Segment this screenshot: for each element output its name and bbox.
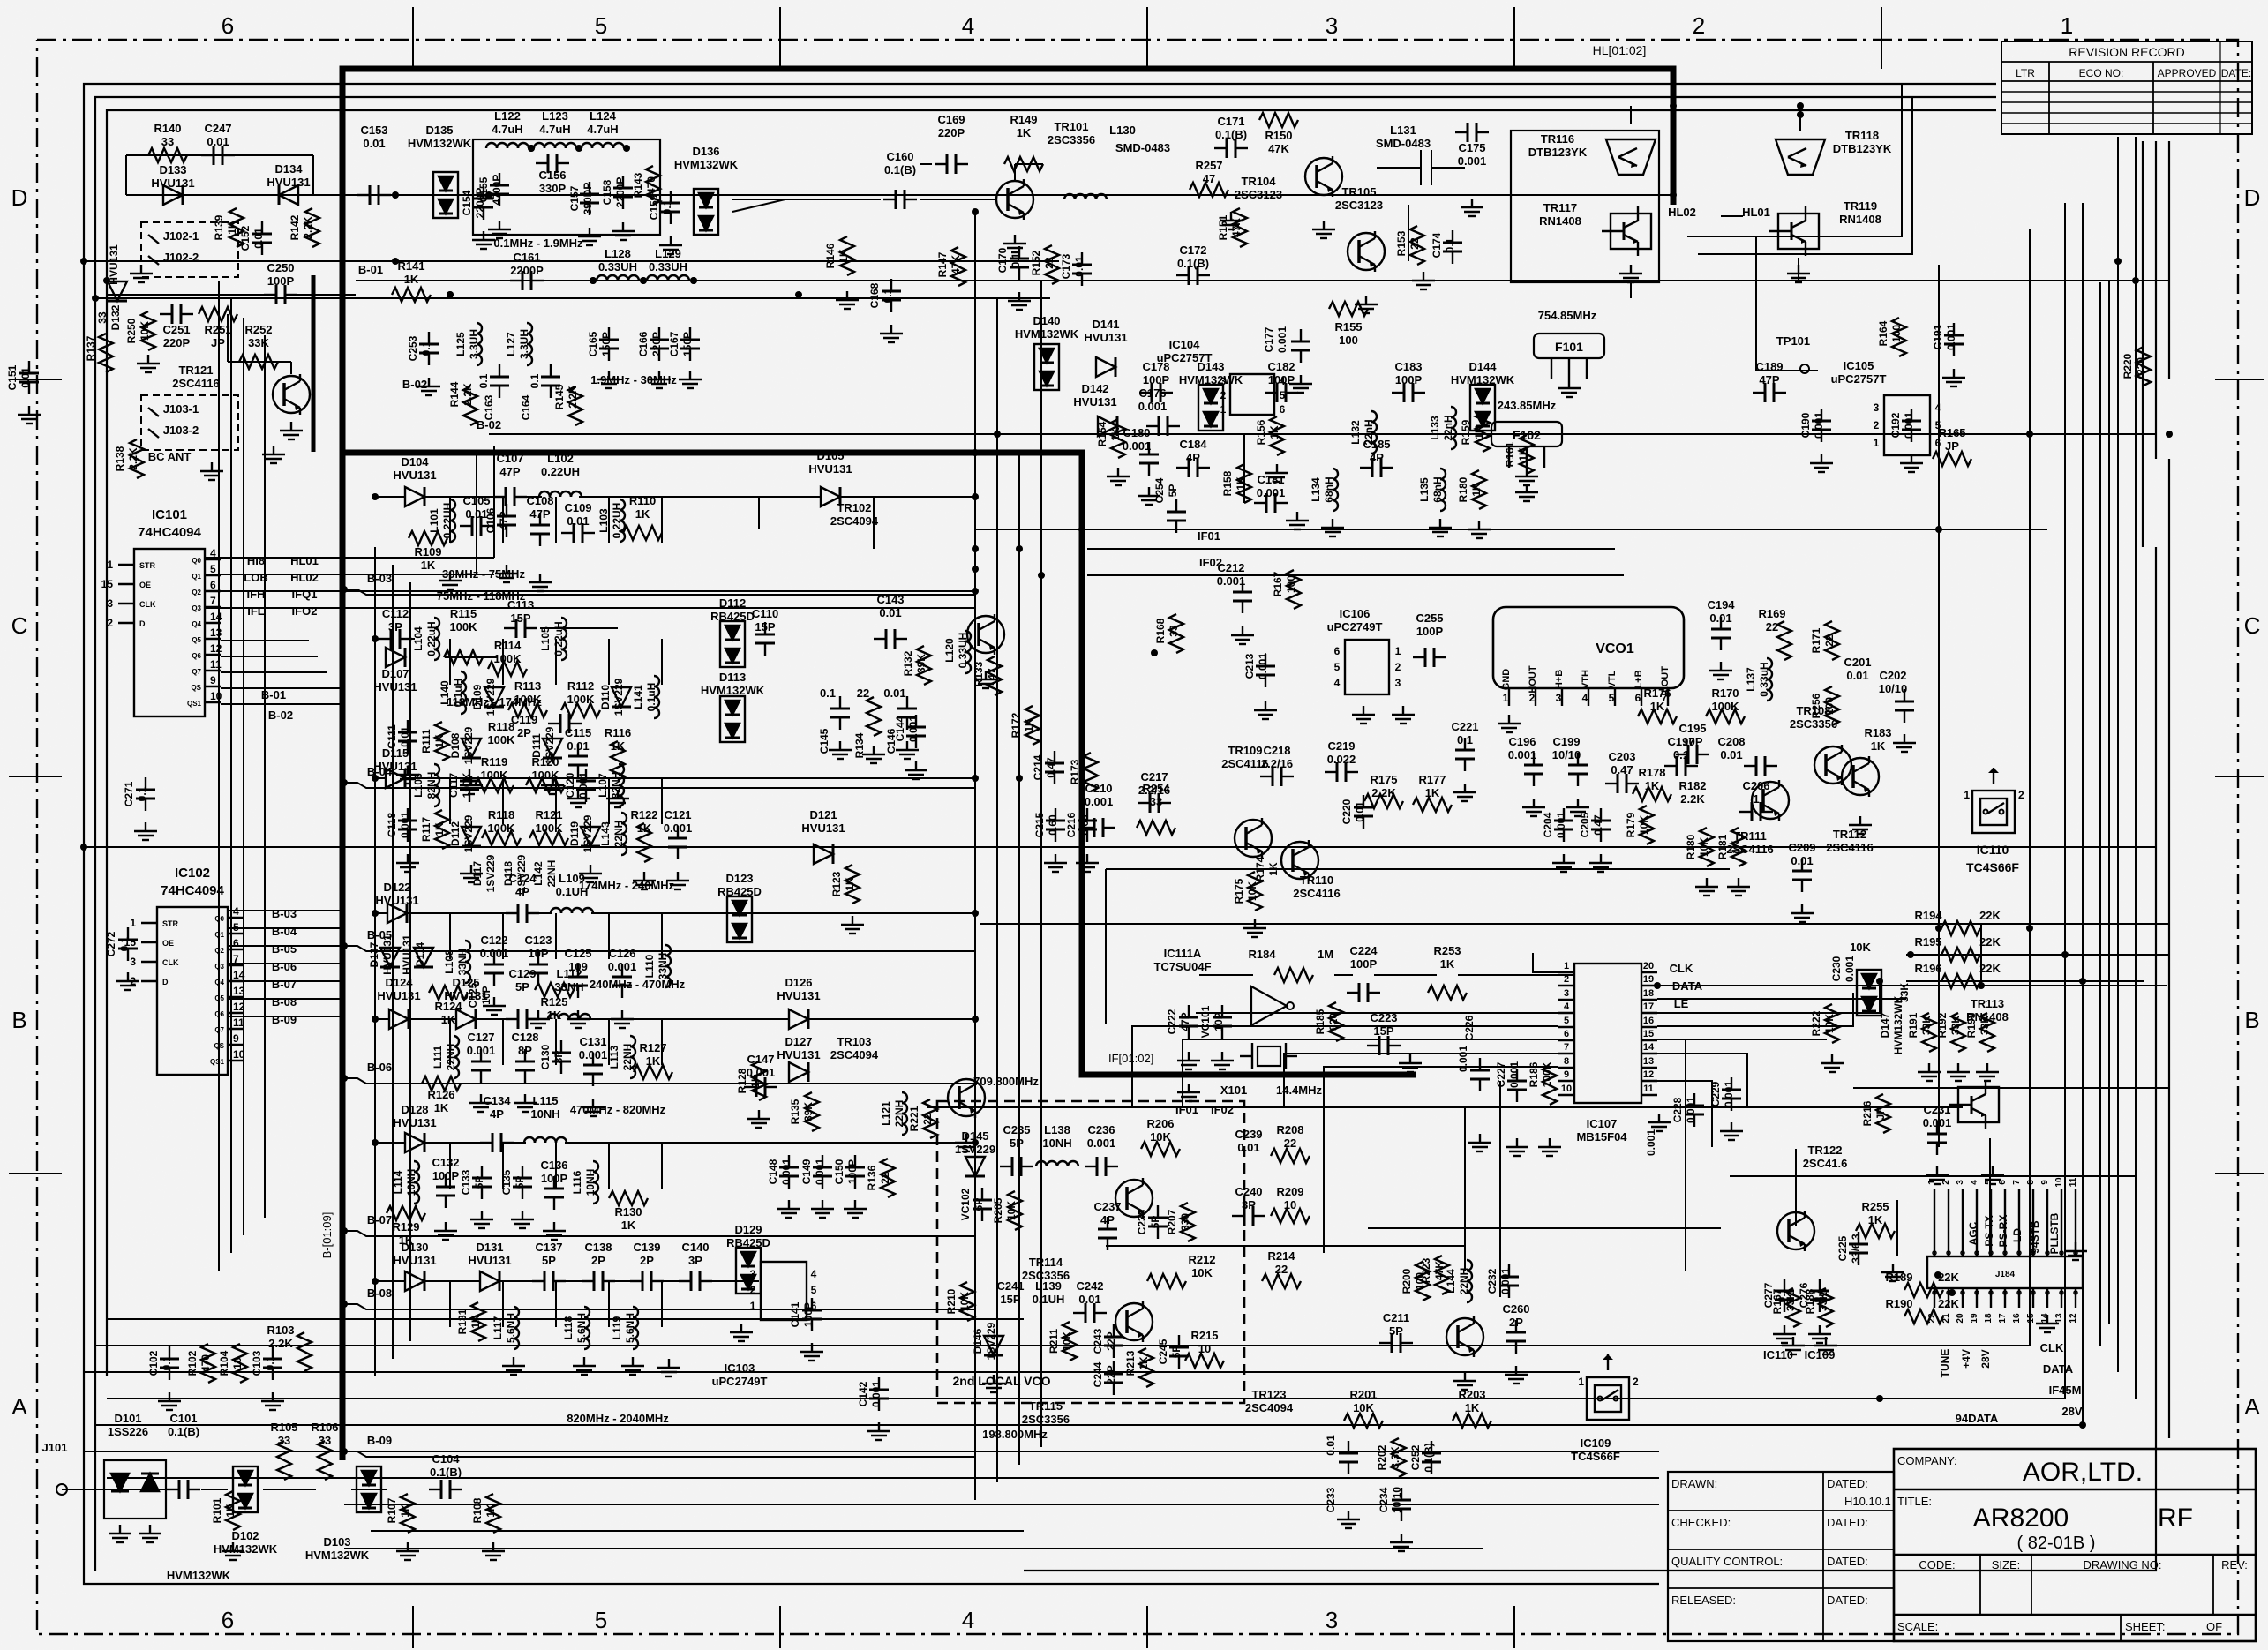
ground xyxy=(1076,854,1099,872)
resistor R210 xyxy=(945,1288,971,1314)
inductor L120 symbol xyxy=(965,631,971,673)
resistor R168 symbol xyxy=(1169,614,1183,653)
diode D126 symbol xyxy=(789,1009,808,1029)
capacitor C119 symbol xyxy=(548,714,582,733)
capacitor C138 xyxy=(584,1241,612,1267)
cap value xyxy=(820,686,836,700)
resistor R255 xyxy=(1861,1200,1889,1226)
capacitor C121 xyxy=(664,808,693,835)
ground xyxy=(1177,1084,1200,1101)
capacitor C219 xyxy=(1327,739,1356,766)
inductor L115 xyxy=(530,1094,559,1121)
IC IC110 switch xyxy=(1964,768,2024,874)
resistor R127 symbol xyxy=(634,1065,672,1079)
capacitor C277 symbol xyxy=(1775,1279,1794,1312)
resistor R195 symbol xyxy=(1941,948,1980,962)
net HL01 xyxy=(1742,206,1770,219)
ground xyxy=(844,1200,867,1218)
v xyxy=(1979,909,2001,922)
resistor R191 symbol xyxy=(1922,1013,1936,1052)
capacitor C156 symbol xyxy=(536,154,569,173)
resistor R115 xyxy=(449,607,477,634)
ground xyxy=(1814,1337,1837,1354)
transistor TR111 label xyxy=(1726,829,1774,856)
ground xyxy=(1942,369,1965,386)
capacitor C152 symbol xyxy=(252,221,272,255)
resistor R256 xyxy=(1810,693,1836,718)
cap 0.01 xyxy=(1325,1435,1337,1456)
resistor R214 xyxy=(1267,1249,1295,1276)
capacitor C175 symbol xyxy=(1455,123,1489,142)
diode D132 symbol xyxy=(108,281,127,301)
resistor R151 symbol xyxy=(1233,208,1247,247)
resistor R165 xyxy=(1938,426,1965,453)
junction xyxy=(690,277,697,284)
inductor L104 xyxy=(412,621,438,656)
ground xyxy=(1138,487,1160,505)
junction xyxy=(575,145,582,152)
connector J184 pins xyxy=(1927,1177,2078,1324)
crystal X101 xyxy=(1240,1043,1297,1069)
net B-07 xyxy=(272,978,297,991)
capacitor C233 label xyxy=(1325,1487,1337,1512)
resistor R114 symbol xyxy=(488,662,527,676)
wire xyxy=(141,911,342,1016)
capacitor C233 symbol xyxy=(1339,1441,1358,1474)
capacitor C164 symbol xyxy=(541,364,560,398)
capacitor C134 symbol xyxy=(480,1133,514,1152)
diode D114 xyxy=(401,934,426,975)
capacitor C218 symbol xyxy=(1260,767,1294,786)
diode D145 xyxy=(955,1129,995,1156)
inductor L129 symbol xyxy=(647,275,689,281)
diode D118 xyxy=(502,854,528,892)
diode D127 xyxy=(777,1035,820,1061)
capacitor C181 xyxy=(1257,473,1286,499)
resistor R133 symbol xyxy=(988,656,1002,695)
capacitor C214 xyxy=(1032,754,1057,780)
inductor L143 symbol xyxy=(621,813,627,855)
resistor R184 name xyxy=(1248,948,1276,961)
ground xyxy=(469,1094,492,1112)
resistor R110 symbol xyxy=(623,526,662,540)
inductor L109 xyxy=(556,872,589,898)
net DATA2 xyxy=(2043,1362,2074,1376)
diode D143 symbol xyxy=(1198,385,1223,431)
ground xyxy=(836,291,859,309)
capacitor C174 xyxy=(1431,232,1456,258)
net B-01 xyxy=(261,688,286,701)
diode D140 xyxy=(1015,314,1079,341)
transistor TR104 xyxy=(1305,156,1342,197)
inductor L116 symbol xyxy=(593,1161,598,1204)
transistor TR123 label xyxy=(1245,1388,1294,1414)
inductor L106 xyxy=(412,772,438,799)
inductor L128 xyxy=(598,247,637,274)
diode D123 xyxy=(717,872,762,898)
ground xyxy=(659,236,682,254)
ground xyxy=(1321,519,1344,536)
capacitor C142 xyxy=(857,1381,882,1407)
resistor R207 xyxy=(1166,1209,1191,1234)
ground xyxy=(841,916,864,934)
capacitor C142 symbol xyxy=(869,1377,889,1411)
diode D137 xyxy=(368,934,394,975)
capacitor C251 xyxy=(162,323,190,349)
diode D143 xyxy=(1179,360,1243,386)
resistor R141 symbol xyxy=(392,288,431,302)
resistor R181 symbol xyxy=(1731,828,1746,866)
capacitor C105 symbol xyxy=(460,516,493,536)
net B-09 xyxy=(272,1013,297,1026)
resistor R216 symbol xyxy=(1876,1094,1890,1133)
L130 label xyxy=(1115,141,1170,154)
resistor R109 symbol xyxy=(409,531,447,545)
resistor R164 symbol xyxy=(1892,318,1906,356)
diode D122 symbol xyxy=(387,904,407,923)
net HL01 xyxy=(290,554,319,567)
resistor R213 symbol xyxy=(1139,1348,1153,1387)
resistor R189 symbol2 xyxy=(1904,1283,1943,1297)
capacitor C145 symbol xyxy=(830,696,850,730)
capacitor C191 xyxy=(1932,324,1957,350)
ground xyxy=(1720,1122,1743,1140)
inductor L130 symbol xyxy=(1064,194,1107,199)
capacitor C206 xyxy=(1742,779,1769,806)
inductor L112 xyxy=(554,967,583,994)
ground xyxy=(747,1110,770,1128)
resistor R180 symbol xyxy=(1472,470,1486,509)
diode D101 bridge xyxy=(104,1460,166,1542)
capacitor C168 xyxy=(868,282,894,308)
ground xyxy=(1791,904,1814,922)
ground xyxy=(1453,784,1476,801)
capacitor C113 symbol xyxy=(504,619,537,638)
capacitor C240 symbol xyxy=(1232,1206,1265,1226)
diode D146 xyxy=(972,1322,997,1360)
resistor R176 symbol xyxy=(1638,709,1677,724)
diode D130 symbol xyxy=(405,1271,424,1291)
resistor R221 xyxy=(908,1106,934,1131)
resistor R183 label xyxy=(1864,726,1891,753)
net IFO2 xyxy=(292,604,318,618)
R184 value xyxy=(1318,948,1333,961)
capacitor C185 symbol xyxy=(1360,458,1393,477)
resistor R215 xyxy=(1190,1329,1218,1355)
capacitor C171 xyxy=(1215,115,1247,141)
resistor R124 xyxy=(434,1000,462,1026)
resistor R145 symbol xyxy=(568,386,582,425)
capacitor C231 xyxy=(1923,1103,1952,1129)
resistor R142 xyxy=(289,214,314,240)
ground xyxy=(1453,1372,1476,1390)
ground xyxy=(1981,1166,2004,1184)
ground xyxy=(612,222,635,240)
resistor R127 xyxy=(639,1041,666,1068)
resistor R172 xyxy=(1010,712,1035,738)
transistor TR122 xyxy=(1777,1211,1814,1251)
transistor TR103 label xyxy=(830,1035,879,1061)
resistor R188 symbol xyxy=(1819,1288,1833,1327)
band label 240-470 xyxy=(590,978,686,991)
resistor R106 lab xyxy=(311,1421,338,1447)
resistor R171 symbol xyxy=(1825,621,1839,660)
inductor L117 xyxy=(492,1313,517,1343)
value xyxy=(1938,1271,1959,1284)
resistor R154 xyxy=(1096,421,1122,446)
capacitor C128 symbol xyxy=(515,1049,535,1083)
inductor L135 xyxy=(1418,476,1444,502)
resistor R155 xyxy=(1334,320,1362,347)
wire xyxy=(205,446,975,704)
resistor R159 symbol xyxy=(1476,413,1490,452)
net HL02 xyxy=(1668,206,1696,219)
capacitor C153 xyxy=(360,124,387,150)
resistor R185 symbol xyxy=(1329,1002,1343,1041)
ground xyxy=(1265,464,1288,482)
capacitor C165 symbol xyxy=(599,327,619,361)
capacitor C213 xyxy=(1243,653,1269,679)
inductor L106 symbol xyxy=(434,764,439,806)
capacitor C107 xyxy=(496,452,523,478)
diode D111 xyxy=(530,726,556,764)
IC IC101 74HC4094 xyxy=(101,507,222,716)
capacitor C238 xyxy=(1136,1209,1161,1234)
band label 174-240 xyxy=(579,879,675,892)
inductor L144 symbol xyxy=(1467,1260,1472,1302)
wire xyxy=(1377,150,1465,185)
resistor R147 symbol xyxy=(951,247,965,286)
ground xyxy=(567,790,590,807)
diode D121 xyxy=(801,808,845,835)
ground xyxy=(1399,1054,1422,1072)
capacitor C226 symbol xyxy=(1470,1058,1490,1091)
ground xyxy=(829,741,852,759)
diode D134 symbol xyxy=(279,185,298,205)
resistor R131 symbol xyxy=(471,1302,485,1341)
resistor R150 symbol xyxy=(1259,113,1298,127)
capacitor C212 xyxy=(1217,561,1246,588)
ground xyxy=(1008,292,1031,310)
resistor R119 symbol xyxy=(475,778,514,792)
diode D117 xyxy=(471,854,497,892)
inductor L105 symbol xyxy=(561,618,567,660)
resistor R172 symbol xyxy=(1025,706,1040,745)
resistor R250 xyxy=(125,318,151,343)
capacitor C160 symbol xyxy=(883,190,917,209)
IC104 box xyxy=(1220,374,1286,416)
capacitor C119 label xyxy=(511,713,537,739)
net IFQ1 xyxy=(292,588,318,601)
resistor R101 xyxy=(211,1497,237,1523)
capacitor C182 xyxy=(1267,360,1295,386)
resistor R253 symbol xyxy=(1428,986,1467,1000)
ground xyxy=(1589,854,1612,872)
inductor L124 symbol xyxy=(582,143,624,148)
diode D125 symbol xyxy=(456,1009,476,1029)
ground xyxy=(896,741,919,759)
capacitor C124 xyxy=(508,872,537,898)
capacitor C115 xyxy=(565,726,591,753)
resistor R134 symbol xyxy=(867,697,881,736)
IC IC107 box xyxy=(1558,961,1657,1103)
capacitor C195 symbol xyxy=(1676,745,1709,764)
capacitor C271 symbol xyxy=(136,777,155,811)
resistor R104 xyxy=(218,1350,244,1376)
ground xyxy=(578,228,601,245)
capacitor C140 symbol xyxy=(679,1271,712,1291)
inductor L129 xyxy=(649,247,687,274)
diode D131 xyxy=(468,1241,511,1267)
ground xyxy=(811,1200,834,1218)
resistor R208 xyxy=(1276,1123,1303,1150)
capacitor C245 xyxy=(1157,1339,1183,1364)
inductor L111 xyxy=(432,1044,457,1071)
diode D119 xyxy=(568,814,594,852)
diode D102 symbol xyxy=(233,1466,258,1512)
capacitor C153 symbol xyxy=(357,185,391,205)
ground xyxy=(1808,1325,1831,1343)
capacitor C209 symbol xyxy=(1792,859,1812,892)
filter box 0.1-1.9MHz xyxy=(473,139,660,235)
capacitor C196 symbol xyxy=(1524,753,1543,786)
transistor TR101 xyxy=(996,179,1033,220)
ground xyxy=(1515,484,1538,501)
transistor TR110 xyxy=(1281,840,1318,881)
bus B-01/B-02 thick stub xyxy=(312,275,316,452)
resistor R192 symbol xyxy=(1951,1013,1965,1052)
net B-05 bus takeoff xyxy=(344,928,975,951)
ground xyxy=(1782,1337,1805,1354)
testpoint TP101 xyxy=(1776,334,1810,348)
res value xyxy=(857,686,869,700)
ground xyxy=(1231,626,1254,644)
inductor L104 symbol xyxy=(434,618,439,660)
net HL02 xyxy=(290,571,319,584)
diode D133 symbol xyxy=(163,185,183,205)
inductor L140 symbol xyxy=(461,671,466,714)
ground xyxy=(482,1542,505,1560)
diode D112 xyxy=(710,596,755,623)
capacitor C255 xyxy=(1416,611,1443,638)
ground xyxy=(1773,1325,1796,1343)
resistor R128 symbol xyxy=(752,1061,766,1100)
net IF01 xyxy=(1198,529,1220,543)
capacitor C125 label xyxy=(467,982,492,1008)
capacitor C203 xyxy=(1608,750,1635,776)
wire xyxy=(732,199,881,212)
capacitor C173 xyxy=(1060,253,1085,279)
transistor TR113 label xyxy=(1966,997,2009,1024)
inductor L109 symbol xyxy=(551,908,593,913)
ground xyxy=(1337,1511,1360,1528)
resistor R179 xyxy=(1625,812,1650,837)
resistor R220 symbol xyxy=(2137,347,2151,386)
capacitor C161 symbol xyxy=(510,271,544,290)
capacitor C136 symbol xyxy=(544,1176,564,1210)
D102 label xyxy=(167,1569,231,1582)
diode D112 var symbol xyxy=(462,827,481,846)
ground xyxy=(18,406,41,424)
resistor R173 symbol xyxy=(1084,753,1098,791)
junction xyxy=(590,277,597,284)
resistor R108 xyxy=(471,1497,497,1523)
inductor L101 xyxy=(428,503,454,539)
resistor R200 xyxy=(1401,1268,1426,1294)
net B-06 xyxy=(272,960,297,973)
capacitor C244 symbol xyxy=(1104,1361,1123,1395)
ground xyxy=(116,972,139,990)
capacitor C254 symbol xyxy=(1167,499,1186,533)
ground xyxy=(905,761,927,779)
resistor R103 symbol xyxy=(297,1332,312,1371)
resistor R125 xyxy=(540,995,567,1022)
resistor R187 xyxy=(1771,1288,1797,1314)
capacitor C110 symbol xyxy=(755,622,775,656)
resistor R126 xyxy=(427,1088,454,1114)
resistor R167 symbol xyxy=(1287,570,1301,609)
net B-09 bus takeoff xyxy=(344,1434,975,1457)
ground xyxy=(567,1010,590,1028)
net B-04 xyxy=(272,925,297,938)
capacitor C149 symbol xyxy=(813,1155,832,1189)
resistor R201 symbol xyxy=(1344,1414,1383,1428)
capacitor C184 symbol xyxy=(1176,458,1210,477)
capacitor C203 symbol xyxy=(1605,774,1639,793)
resistor R149 symbol xyxy=(1004,157,1043,171)
resistor R190 symbol xyxy=(1904,1309,1943,1324)
cap xyxy=(1457,1046,1469,1072)
inductor L128 symbol xyxy=(597,275,639,281)
capacitor C199 symbol xyxy=(1568,753,1588,786)
resistor R211 symbol xyxy=(1063,1322,1077,1361)
capacitor C182 symbol xyxy=(1265,383,1298,402)
resistor R136 symbol xyxy=(881,1159,895,1197)
capacitor C135 xyxy=(500,1169,526,1195)
wire xyxy=(375,1142,975,1144)
ground xyxy=(262,446,285,463)
capacitor C216 xyxy=(1065,812,1091,837)
ground xyxy=(867,1422,890,1440)
capacitor C132 symbol xyxy=(436,1174,455,1208)
resistor R216 xyxy=(1861,1100,1887,1126)
ground xyxy=(1538,1138,1561,1156)
ground xyxy=(579,865,602,882)
resistor R188 xyxy=(1804,1288,1829,1314)
inductor L131 xyxy=(1376,124,1431,150)
2nd LOCAL VCO dashed box xyxy=(937,1101,1244,1403)
resistor R152 symbol xyxy=(1045,245,1059,284)
cap xyxy=(1645,1129,1657,1156)
resistor R206 xyxy=(1146,1117,1174,1144)
net B-02 label xyxy=(402,378,427,391)
resistor R254 symbol xyxy=(1137,821,1175,835)
resistor R221 symbol xyxy=(923,1099,937,1138)
capacitor C117 symbol xyxy=(460,769,479,802)
capacitor C157 symbol xyxy=(580,182,599,215)
ground xyxy=(1312,221,1335,238)
ground xyxy=(1566,799,1589,816)
diode D123 symbol xyxy=(727,896,752,942)
capacitor C190 xyxy=(1799,412,1825,439)
ground xyxy=(1900,454,1923,472)
capacitor C149 xyxy=(800,1159,826,1185)
resistor R149 xyxy=(1010,113,1037,139)
capacitor C159 symbol xyxy=(661,191,680,224)
capacitor C160 xyxy=(884,150,916,176)
inductor L127 xyxy=(505,329,530,359)
diode D105 xyxy=(808,449,852,476)
